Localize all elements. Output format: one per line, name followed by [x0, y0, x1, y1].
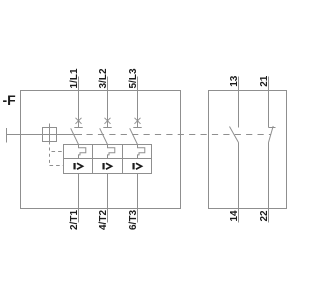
wire terminal 21: [268, 77, 270, 128]
device designator -F: [3, 92, 17, 108]
svg-text:-F: -F: [3, 92, 17, 108]
trip unit cell divider 1: [92, 145, 94, 174]
trip unit box: [64, 145, 152, 174]
NC auxiliary fixed contact stop: [269, 127, 276, 129]
fixed contact pole 3: [133, 127, 141, 129]
wire terminal 2/T1: [78, 174, 80, 223]
svg-text:14: 14: [229, 210, 240, 222]
wire terminal 22: [268, 143, 270, 223]
trip unit row divider: [64, 158, 152, 160]
NO auxiliary moving contact: [230, 127, 239, 143]
wire terminal 14: [238, 143, 240, 223]
terminal label 22: [259, 210, 270, 222]
breaker function cross pole 3: [135, 118, 141, 124]
auxiliary contact block outline: [209, 91, 287, 209]
NC auxiliary moving contact: [269, 126, 274, 143]
trip unit cell divider 2: [122, 145, 124, 174]
magnetic release symbol I> pole 2: [102, 163, 104, 169]
mechanical linkage (dashed): [87, 134, 272, 136]
breaker body outline: [21, 91, 181, 209]
fixed contact pole 2: [103, 127, 111, 129]
magnetic release symbol I> pole 3: [132, 163, 134, 169]
wire terminal 1/L1: [78, 77, 80, 128]
terminal label 14: [229, 210, 240, 222]
wire terminal 5/L3: [137, 77, 139, 128]
terminal label 6/T3: [128, 210, 139, 230]
svg-text:4/T2: 4/T2: [98, 210, 109, 230]
svg-text:22: 22: [259, 210, 270, 222]
trip linkage to magnetic release (dashed): [50, 165, 64, 167]
moving contact pole 2: [100, 128, 108, 144]
magnetic release symbol I> pole 1: [73, 163, 75, 169]
trip linkage to thermal release (dashed): [52, 151, 64, 153]
breaker function cross pole 2: [105, 118, 111, 124]
breaker function cross pole 1: [76, 118, 82, 124]
thermal overload element pole 3: [138, 145, 145, 159]
terminal label 21: [259, 75, 270, 87]
manual operator handle: [6, 128, 8, 143]
thermal overload element pole 1: [79, 145, 86, 159]
trip linkage vertical (dashed): [49, 148, 51, 167]
moving contact pole 3: [130, 128, 138, 144]
terminal label 13: [229, 75, 240, 87]
moving contact pole 1: [71, 128, 79, 144]
svg-text:6/T3: 6/T3: [128, 210, 139, 230]
mechanism box: [43, 128, 57, 142]
fixed contact pole 1: [74, 127, 82, 129]
mechanism actuator stem: [49, 124, 51, 145]
svg-text:2/T1: 2/T1: [69, 210, 80, 230]
terminal label 4/T2: [98, 210, 109, 230]
terminal label 3/L2: [98, 68, 109, 88]
wire terminal 4/T2: [107, 174, 109, 223]
terminal label 2/T1: [69, 210, 80, 230]
wire terminal 3/L2: [107, 77, 109, 128]
terminal label 5/L3: [128, 68, 139, 88]
wire terminal 13: [238, 77, 240, 128]
wire terminal 6/T3: [137, 174, 139, 223]
wire handle to mechanism: [7, 134, 83, 136]
terminal label 1/L1: [69, 68, 80, 88]
thermal overload element pole 2: [108, 145, 115, 159]
